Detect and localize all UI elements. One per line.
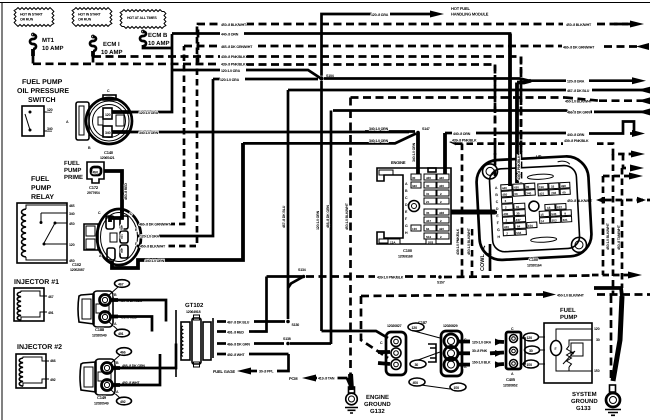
injector #1 box: [14, 288, 54, 321]
svg-text:84: 84: [426, 227, 430, 231]
svg-text:C100: C100: [403, 248, 413, 253]
svg-text:466-.8 DK GRN: 466-.8 DK GRN: [326, 205, 330, 228]
heavy wire x517 into cowl connector top: [517, 81, 531, 183]
svg-text:10 AMP: 10 AMP: [101, 49, 122, 56]
wire 439 dashed arrow right y275: [592, 272, 642, 279]
svg-text:C188: C188: [95, 327, 105, 332]
wire 465 top dashed: [184, 43, 649, 50]
dashed wire x495 into cowl connector: [494, 65, 497, 179]
svg-text:120-1.0 GRA: 120-1.0 GRA: [139, 111, 159, 115]
wire 450 RED into C102 pin C: [110, 210, 122, 222]
svg-text:491: 491: [48, 311, 54, 315]
wire 120 GRA from C140: [112, 34, 172, 115]
svg-text:450-1.0 BLK/WHT: 450-1.0 BLK/WHT: [606, 222, 610, 250]
svg-text:421: 421: [539, 192, 545, 196]
svg-text:252: 252: [552, 218, 558, 222]
svg-text:HOT IN START: HOT IN START: [78, 13, 101, 17]
svg-text:GT102: GT102: [185, 302, 204, 309]
svg-text:439-.8 PNK/BLK: 439-.8 PNK/BLK: [564, 139, 589, 143]
svg-text:340-1.0 ORN: 340-1.0 ORN: [412, 142, 416, 162]
vertical wire 466 DK GRN x331: [326, 111, 331, 345]
svg-text:S134: S134: [298, 268, 306, 272]
node S104: [319, 74, 333, 81]
svg-text:150: 150: [539, 185, 545, 189]
connector C149: [80, 348, 145, 406]
svg-text:340-1.0 ORN: 340-1.0 ORN: [369, 127, 389, 131]
right edge arrow y168: [623, 154, 644, 172]
svg-text:HOT AT ALL TIMES: HOT AT ALL TIMES: [127, 16, 157, 20]
svg-text:S157: S157: [437, 281, 445, 285]
wire 450-1.0 BLK/WHT dashed to right: [351, 97, 650, 104]
svg-text:ECM I: ECM I: [103, 41, 120, 48]
svg-text:340-1.0 ORN: 340-1.0 ORN: [369, 139, 389, 143]
node S134 and 439 wire: [267, 268, 593, 288]
GT102 wires right: 492: [217, 353, 289, 357]
svg-text:450: 450: [93, 171, 99, 175]
svg-text:413-.8 TAN: 413-.8 TAN: [318, 377, 335, 381]
svg-text:440-.8 ORN: 440-.8 ORN: [221, 33, 239, 37]
svg-text:340: 340: [412, 184, 417, 188]
wire 430 PNK/BLK dashed vertical x462: [456, 144, 462, 277]
svg-text:OR RUN: OR RUN: [20, 18, 34, 22]
svg-text:504: 504: [516, 231, 522, 235]
svg-text:439-.8 PNK/BLK: 439-.8 PNK/BLK: [517, 155, 521, 180]
connector C187 left 12020827: [378, 320, 458, 389]
svg-text:84: 84: [517, 224, 521, 228]
wire 120 GRA #1: [172, 69, 321, 79]
svg-text:465: 465: [69, 204, 75, 208]
svg-text:SYSTEM: SYSTEM: [572, 391, 597, 398]
svg-text:450: 450: [120, 248, 124, 253]
svg-text:120: 120: [527, 336, 533, 340]
GT102 wires right: 467: [217, 321, 285, 325]
svg-text:12020549: 12020549: [94, 402, 109, 406]
svg-text:C405: C405: [506, 377, 516, 382]
svg-text:ENGINE: ENGINE: [366, 394, 389, 401]
svg-text:S138: S138: [283, 337, 291, 341]
svg-text:S147: S147: [422, 127, 430, 131]
svg-text:120-1.0 GRA: 120-1.0 GRA: [220, 78, 240, 82]
svg-text:12059168: 12059168: [398, 255, 413, 259]
wire 466 DK GRN to right: [333, 109, 650, 116]
svg-text:465-.8 DK GRN/WHT: 465-.8 DK GRN/WHT: [139, 223, 171, 227]
svg-text:430: 430: [439, 184, 444, 188]
svg-text:30: 30: [426, 184, 430, 188]
vertical wire 120 ORN x321 from S104: [316, 81, 322, 331]
svg-text:G132: G132: [370, 408, 385, 415]
svg-text:466-.8 DK GRN: 466-.8 DK GRN: [227, 343, 250, 347]
svg-text:12020827: 12020827: [387, 324, 402, 328]
wire 340 ORN from C102 pin A: [112, 143, 243, 268]
svg-text:450-1.0 BLK/WHT: 450-1.0 BLK/WHT: [557, 294, 585, 298]
svg-text:492: 492: [120, 400, 126, 404]
svg-text:HOT FUEL: HOT FUEL: [451, 6, 471, 11]
svg-text:PUMP: PUMP: [31, 185, 52, 192]
svg-text:12064918: 12064918: [186, 310, 201, 314]
wire 467 DK BLU to right: [288, 87, 650, 94]
svg-text:450-1.0 BLK/WHT: 450-1.0 BLK/WHT: [345, 202, 349, 230]
svg-text:C140: C140: [104, 150, 114, 155]
svg-text:ECM B: ECM B: [148, 32, 168, 39]
svg-text:439-1.0 PNK/BLK: 439-1.0 PNK/BLK: [456, 228, 460, 255]
svg-text:30-.8 PNK: 30-.8 PNK: [472, 349, 488, 353]
svg-text:40: 40: [562, 190, 566, 194]
svg-text:439-.8 PNK/BLK: 439-.8 PNK/BLK: [221, 63, 246, 67]
svg-text:C172: C172: [89, 185, 99, 190]
fuse ECM I: [90, 35, 122, 56]
svg-text:13A: 13A: [390, 241, 396, 245]
svg-text:COWL: COWL: [480, 254, 486, 271]
wire 120 to C187: [322, 331, 389, 338]
dashed wire 439 into cowl connector x521: [517, 57, 521, 184]
svg-text:340-1.0 ORN: 340-1.0 ORN: [139, 131, 159, 135]
system ground G133: [571, 295, 622, 415]
svg-text:439-.8 PNK/BLK: 439-.8 PNK/BLK: [452, 139, 477, 143]
svg-text:G: G: [405, 224, 408, 228]
svg-text:C149: C149: [97, 395, 107, 400]
svg-text:12052087: 12052087: [70, 268, 85, 272]
svg-text:120: 120: [120, 234, 124, 239]
svg-text:492: 492: [50, 378, 56, 382]
heavy wire 440 into cowl connector top: [508, 34, 512, 187]
svg-text:30: 30: [596, 338, 600, 342]
wire 450 RED from C172: [104, 171, 128, 212]
svg-text:OR RUN: OR RUN: [78, 18, 92, 22]
svg-text:30-.8 PPL: 30-.8 PPL: [259, 370, 274, 374]
svg-text:450-1.0 BLK/WHT: 450-1.0 BLK/WHT: [467, 227, 471, 255]
wire dashed from ECM I fuse: [92, 57, 95, 63]
svg-text:31: 31: [516, 205, 520, 209]
svg-text:150-1.0 BLK: 150-1.0 BLK: [472, 361, 491, 365]
hot-in-start callout box 1: [14, 8, 54, 27]
right edge dashed column x621: [621, 168, 624, 288]
fuel pump relay label: [31, 176, 54, 201]
svg-text:822: 822: [557, 205, 563, 209]
svg-text:12065421: 12065421: [100, 156, 115, 160]
svg-text:120-1.0 GRA: 120-1.0 GRA: [472, 341, 492, 345]
border frame top: [0, 2, 650, 4]
svg-text:150: 150: [454, 386, 460, 390]
svg-text:INJECTOR #2: INJECTOR #2: [17, 344, 62, 351]
svg-text:978: 978: [428, 241, 433, 245]
svg-text:30: 30: [514, 192, 518, 196]
svg-text:FUEL PUMP: FUEL PUMP: [22, 79, 63, 86]
node S147: [416, 127, 430, 134]
wire 340 ORN from C140: [112, 131, 409, 135]
svg-text:438: 438: [439, 211, 444, 215]
svg-text:120-1.0 ORN: 120-1.0 ORN: [316, 210, 320, 230]
injector #2 wires to GT102 bus: [120, 344, 176, 369]
svg-text:467-.8 DK BLU: 467-.8 DK BLU: [282, 205, 286, 228]
wire 450 dashed bottom y294.5: [361, 291, 650, 358]
svg-text:150: 150: [594, 369, 600, 373]
svg-text:2977954: 2977954: [87, 191, 100, 195]
right edge dashed 450 y199: [567, 197, 650, 204]
svg-text:13: 13: [547, 206, 551, 210]
wire 120 GRA to right arrow: [324, 77, 646, 84]
svg-text:30: 30: [526, 185, 530, 189]
svg-text:MT1: MT1: [42, 37, 55, 44]
svg-text:12020549: 12020549: [92, 334, 107, 338]
svg-text:30: 30: [415, 363, 419, 367]
svg-text:120: 120: [594, 327, 600, 331]
svg-text:467-.8 DK BLU: 467-.8 DK BLU: [227, 321, 250, 325]
svg-text:HANDLING MODULE: HANDLING MODULE: [451, 12, 489, 17]
svg-text:21: 21: [426, 200, 430, 204]
connector C100 engine side: [377, 160, 451, 259]
svg-text:437: 437: [426, 219, 431, 223]
svg-text:440: 440: [439, 176, 444, 180]
wire S134 elbow down to 491: [255, 277, 267, 332]
fuel pump prime label: [64, 160, 83, 181]
svg-text:PUMP: PUMP: [560, 314, 577, 321]
wire 450 BLK/WHT top dashed: [198, 21, 644, 63]
svg-text:292: 292: [551, 191, 557, 195]
wire 340 ORN line1 to S147: [365, 127, 415, 132]
svg-text:GROUND: GROUND: [364, 401, 391, 408]
heavy ground feed from cowl connector right: [594, 288, 622, 296]
svg-text:450-.8 BLK/WHT: 450-.8 BLK/WHT: [566, 23, 592, 27]
svg-text:450-.8 TAN/WHT: 450-.8 TAN/WHT: [617, 224, 621, 250]
svg-text:RELAY: RELAY: [31, 194, 54, 201]
svg-text:C100: C100: [529, 257, 539, 262]
svg-text:120: 120: [69, 243, 75, 247]
svg-text:440-.8 ORN: 440-.8 ORN: [453, 132, 471, 136]
svg-text:450: 450: [413, 381, 419, 385]
svg-text:439-.8 PNK/BLK: 439-.8 PNK/BLK: [221, 55, 246, 59]
svg-text:430: 430: [503, 212, 509, 216]
svg-text:440-.8 ORN: 440-.8 ORN: [567, 133, 585, 137]
svg-text:450: 450: [69, 222, 75, 226]
svg-text:FUEL: FUEL: [31, 176, 50, 183]
svg-text:420: 420: [504, 225, 510, 229]
thick wire C100 to cowl connector: [451, 210, 497, 215]
svg-text:466: 466: [120, 351, 126, 355]
svg-text:120-.8 GRA: 120-.8 GRA: [567, 80, 585, 84]
svg-text:340: 340: [69, 212, 75, 216]
svg-text:120: 120: [105, 113, 111, 117]
node S130: [286, 320, 299, 327]
svg-text:450-.8 BLK/WHT: 450-.8 BLK/WHT: [221, 23, 247, 27]
svg-text:12020164: 12020164: [527, 264, 542, 268]
svg-text:543: 543: [551, 212, 557, 216]
right edge dashed column x603: [602, 176, 605, 275]
svg-text:PRIME: PRIME: [64, 174, 83, 181]
svg-text:10 AMP: 10 AMP: [42, 45, 63, 52]
svg-text:340: 340: [526, 191, 532, 195]
connector C405: [503, 327, 545, 388]
vertical wire 450 BLK/WHT dashed x350: [345, 98, 351, 377]
oil pressure switch box: [22, 106, 53, 136]
connector C100 cowl side (big square): [475, 154, 592, 271]
svg-text:FUEL: FUEL: [64, 160, 80, 167]
svg-text:31: 31: [426, 192, 430, 196]
svg-text:120-1.0 GRA: 120-1.0 GRA: [140, 235, 160, 239]
wire 120 GRA from C102 pin E: [137, 79, 213, 239]
wire 440 ORN into C100 and right: [445, 122, 645, 178]
svg-text:340: 340: [105, 131, 111, 135]
svg-text:465-.8 DK GRN/WHT: 465-.8 DK GRN/WHT: [563, 45, 595, 49]
svg-text:439-1.0 PNK/BLK: 439-1.0 PNK/BLK: [377, 276, 404, 280]
svg-text:465: 465: [120, 225, 124, 230]
engine ground G132: [345, 374, 391, 415]
svg-text:10 AMP: 10 AMP: [148, 40, 169, 47]
svg-text:GROUND: GROUND: [571, 398, 598, 405]
svg-text:35: 35: [426, 211, 430, 215]
wire 439 PNK/BLK dashed #1: [93, 55, 521, 157]
fuse ECM B: [140, 30, 169, 48]
svg-text:498: 498: [561, 184, 567, 188]
vertical wire 467 DK BLU x288: [282, 90, 288, 319]
svg-text:340: 340: [47, 127, 53, 131]
svg-text:S130: S130: [292, 323, 300, 327]
svg-text:150: 150: [527, 363, 533, 367]
svg-text:467: 467: [48, 295, 54, 299]
GT102 wires right: 491: [217, 331, 255, 335]
wire dashed from MT1 fuse: [32, 56, 35, 64]
svg-text:120: 120: [47, 108, 53, 112]
border frame left: [1, 3, 3, 420]
svg-text:450-.8 RED: 450-.8 RED: [124, 183, 128, 200]
svg-text:492-.8 WHT: 492-.8 WHT: [227, 353, 245, 357]
wire 340 ORN line2 diagonal to S147: [243, 134, 416, 144]
right edge dashed column x613: [612, 154, 615, 294]
svg-text:30: 30: [529, 349, 533, 353]
svg-text:467: 467: [118, 283, 124, 287]
svg-text:491: 491: [118, 332, 124, 336]
svg-text:504: 504: [426, 235, 431, 239]
svg-text:120-1.0 GRA: 120-1.0 GRA: [221, 69, 241, 73]
fuse MT1: [30, 33, 63, 56]
fuel pump box: [544, 323, 600, 383]
wire hot fuel module: [322, 6, 489, 76]
svg-text:465-.8 DK GRN/WHT: 465-.8 DK GRN/WHT: [221, 45, 253, 49]
svg-text:430: 430: [426, 176, 431, 180]
svg-text:130: 130: [412, 227, 417, 231]
wire 120 GRA #2: [213, 78, 318, 82]
svg-text:ENGINE: ENGINE: [391, 160, 406, 165]
svg-text:INJECTOR #1: INJECTOR #1: [14, 279, 59, 286]
right edge arrow y176: [603, 173, 643, 180]
hot-at-all-times callout box 3: [120, 10, 166, 29]
injector #1 wires to GT102 bus: [118, 300, 166, 322]
svg-text:120: 120: [412, 326, 418, 330]
svg-text:15: 15: [540, 213, 544, 217]
svg-text:G133: G133: [576, 405, 591, 412]
svg-text:466-.8 DK GRN: 466-.8 DK GRN: [567, 111, 590, 115]
GT102 wires right: 466: [217, 337, 331, 347]
svg-text:PUMP: PUMP: [64, 167, 81, 174]
wire 30 PPL fuel gage: [213, 354, 289, 375]
svg-text:450: 450: [502, 193, 508, 197]
svg-text:PCM: PCM: [289, 376, 298, 381]
connector C102 oval: [84, 209, 141, 265]
svg-text:SWITCH: SWITCH: [28, 97, 56, 104]
svg-text:OIL PRESSURE: OIL PRESSURE: [17, 88, 69, 95]
GT102: [176, 302, 213, 377]
wire 439 PNK/BLK dashed #2: [33, 63, 495, 161]
svg-text:150: 150: [528, 224, 534, 228]
svg-text:12020829: 12020829: [443, 324, 458, 328]
svg-text:491-.8 RED: 491-.8 RED: [227, 331, 244, 335]
fuel pump relay: [17, 203, 85, 272]
svg-text:467-.8 DK BLU: 467-.8 DK BLU: [567, 89, 590, 93]
svg-text:30: 30: [412, 176, 416, 180]
svg-text:340-1.0 ORN: 340-1.0 ORN: [145, 259, 165, 263]
svg-text:440: 440: [502, 186, 508, 190]
svg-text:450-.8 BLK/WHT: 450-.8 BLK/WHT: [140, 245, 166, 249]
svg-text:33: 33: [551, 185, 555, 189]
svg-text:437: 437: [516, 218, 522, 222]
wire 439 PNK/BLK dashed right of C100: [449, 139, 645, 158]
svg-text:466: 466: [50, 359, 56, 363]
svg-text:FUEL: FUEL: [560, 307, 576, 314]
connector C188: [78, 280, 143, 338]
connector C172: [87, 162, 104, 195]
wire 450 from C102 pin F: [137, 24, 197, 249]
wire 465 from C102 pin D: [137, 46, 184, 227]
wire 413 TAN to PCM: [289, 375, 351, 387]
svg-text:HOT IN START: HOT IN START: [20, 13, 43, 17]
wire 440 ORN top solid: [160, 33, 510, 161]
svg-text:14: 14: [541, 219, 545, 223]
oil pressure switch label: [17, 79, 69, 104]
injector #2 box: [16, 354, 56, 388]
wire 450 BLK/WHT dashed vertical x472: [467, 227, 472, 276]
svg-text:430: 430: [514, 185, 520, 189]
hot-in-start callout box 2: [72, 8, 112, 27]
svg-text:120-.8 GRA: 120-.8 GRA: [371, 13, 389, 17]
svg-text:821: 821: [563, 218, 569, 222]
connector C140: [66, 89, 132, 160]
wire 340 from S147 into C100: [412, 133, 418, 178]
svg-text:FUEL GAGE: FUEL GAGE: [213, 369, 235, 374]
svg-text:C102: C102: [72, 262, 82, 267]
svg-text:35: 35: [516, 211, 520, 215]
svg-text:420: 420: [439, 227, 444, 231]
svg-text:12020852: 12020852: [503, 384, 518, 388]
connector C187 right 12020829: [441, 331, 504, 391]
